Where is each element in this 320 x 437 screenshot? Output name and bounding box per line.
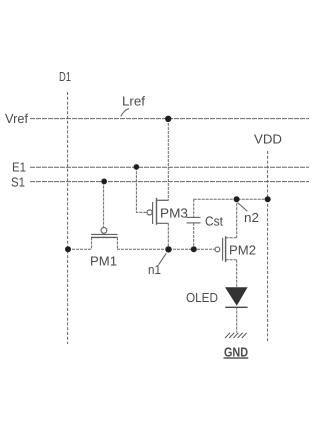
svg-text:PM1: PM1	[90, 254, 117, 269]
svg-text:n1: n1	[148, 262, 161, 277]
svg-text:OLED: OLED	[186, 290, 218, 305]
svg-text:VDD: VDD	[254, 132, 282, 147]
svg-text:Lref: Lref	[122, 94, 145, 109]
svg-text:D1: D1	[59, 69, 71, 84]
svg-text:E1: E1	[12, 160, 26, 175]
svg-text:Cst: Cst	[205, 214, 223, 229]
svg-text:PM2: PM2	[229, 243, 256, 258]
svg-text:GND: GND	[224, 345, 248, 360]
svg-text:S1: S1	[11, 175, 25, 190]
svg-text:Vref: Vref	[5, 111, 28, 126]
svg-text:n2: n2	[244, 210, 259, 225]
svg-text:PM3: PM3	[160, 206, 188, 221]
